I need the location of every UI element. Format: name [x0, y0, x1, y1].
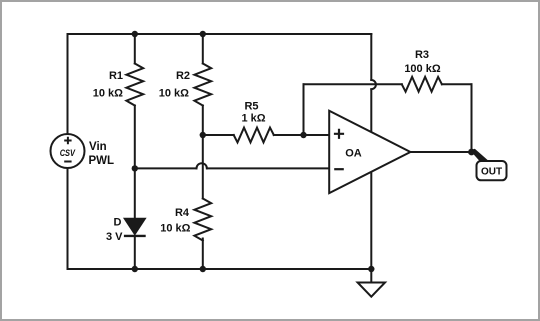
- svg-text:OA: OA: [345, 148, 362, 160]
- svg-text:1 kΩ: 1 kΩ: [241, 113, 265, 125]
- svg-text:10 kΩ: 10 kΩ: [159, 88, 189, 100]
- svg-text:R2: R2: [176, 70, 190, 82]
- svg-text:OUT: OUT: [481, 167, 502, 178]
- svg-text:R5: R5: [244, 101, 258, 113]
- svg-text:CSV: CSV: [60, 148, 76, 159]
- svg-text:PWL: PWL: [89, 155, 115, 167]
- svg-text:10 kΩ: 10 kΩ: [160, 223, 190, 235]
- svg-text:R4: R4: [175, 207, 190, 219]
- svg-text:100 kΩ: 100 kΩ: [404, 63, 441, 75]
- svg-text:D: D: [114, 217, 122, 229]
- svg-text:R1: R1: [109, 70, 123, 82]
- svg-text:10 kΩ: 10 kΩ: [93, 88, 123, 100]
- svg-text:R3: R3: [415, 49, 429, 61]
- svg-text:Vin: Vin: [89, 141, 107, 153]
- svg-text:3 V: 3 V: [106, 231, 123, 243]
